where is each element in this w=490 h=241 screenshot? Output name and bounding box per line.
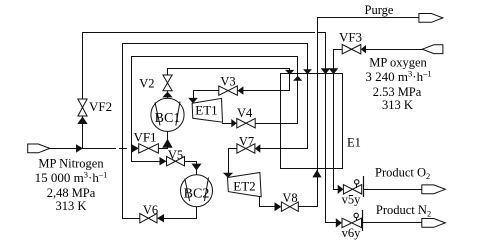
svg-text:Product O2: Product O2 <box>375 165 430 181</box>
svg-text:V8: V8 <box>282 191 297 205</box>
svg-text:V5: V5 <box>168 148 183 162</box>
svg-text:E1: E1 <box>347 136 361 150</box>
svg-text:V2: V2 <box>139 77 154 91</box>
svg-text:BC2: BC2 <box>184 187 210 202</box>
svg-text:V3: V3 <box>220 74 235 88</box>
svg-text:V7: V7 <box>239 134 254 148</box>
svg-text:15 000 m3·h–1: 15 000 m3·h–1 <box>35 170 108 185</box>
svg-text:VF2: VF2 <box>89 99 112 114</box>
svg-text:V4: V4 <box>237 106 253 120</box>
svg-text:313 K: 313 K <box>56 199 87 213</box>
svg-text:Product N2: Product N2 <box>376 203 431 219</box>
svg-text:BC1: BC1 <box>155 111 181 126</box>
svg-text:v6y: v6y <box>342 226 362 240</box>
svg-text:Purge: Purge <box>365 3 394 17</box>
svg-text:MP oxygen: MP oxygen <box>369 56 427 70</box>
svg-text:v5y: v5y <box>342 193 362 207</box>
svg-text:V6: V6 <box>143 203 158 217</box>
svg-text:MP Nitrogen: MP Nitrogen <box>38 157 104 171</box>
svg-text:3 240 m3·h–1: 3 240 m3·h–1 <box>365 69 431 84</box>
svg-text:313 K: 313 K <box>382 98 413 112</box>
svg-text:ET1: ET1 <box>195 103 217 118</box>
svg-text:ET2: ET2 <box>233 179 255 194</box>
svg-text:VF1: VF1 <box>133 130 156 145</box>
svg-text:VF3: VF3 <box>339 30 362 45</box>
